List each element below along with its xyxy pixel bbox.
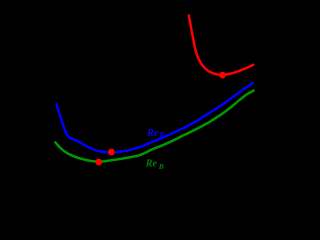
red marker dot on blue curve [108,149,115,156]
blue curve Re_D [57,83,254,153]
svg-text:B: B [158,162,164,171]
green curve Re_B [55,91,253,162]
red marker dot on green curve [95,159,102,166]
svg-text:Re: Re [145,158,158,169]
svg-text:p: p [159,128,164,138]
red curve [189,16,254,75]
svg-text:Re: Re [146,128,159,139]
red marker dot on red curve [219,72,226,79]
